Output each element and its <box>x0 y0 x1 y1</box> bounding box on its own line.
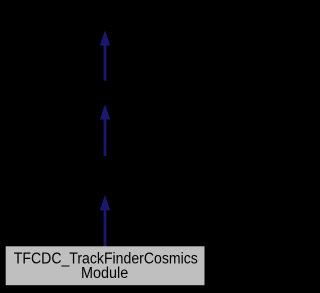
inheritance edge arrow 2 (middle) <box>100 104 110 156</box>
svg-text:Module: Module <box>81 265 128 282</box>
inheritance edge arrow 1 (top) <box>100 30 110 80</box>
inheritance edge arrow 3 (bottom) <box>100 195 110 247</box>
class node TFCDC_TrackFinderCosmicsModule <box>6 246 205 285</box>
